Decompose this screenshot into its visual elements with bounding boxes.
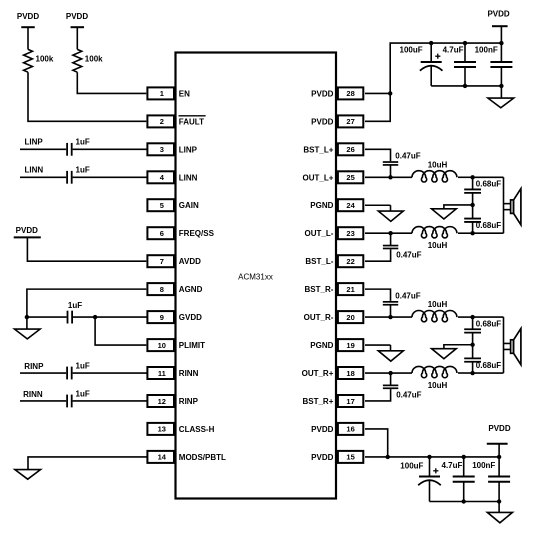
svg-text:16: 16 — [346, 425, 354, 434]
pin 7 AVDD — [147, 255, 201, 267]
capacitor 0.47uF (BST bottom) L — [383, 233, 422, 259]
capacitor 100nF (top) — [475, 43, 513, 86]
wire OUT top to speaker rail R — [473, 316, 504, 318]
pin 17 BST_R+ — [302, 395, 363, 407]
wire top bottom rail — [431, 85, 501, 87]
inductor 10uH (OUT bottom) R — [412, 366, 457, 389]
svg-text:PGND: PGND — [310, 201, 333, 210]
junction top rail at 100uF — [429, 41, 433, 45]
wire RINN to cap — [20, 400, 66, 402]
junction cap rail OUT top R — [470, 315, 474, 319]
svg-text:12: 12 — [158, 397, 166, 406]
power PVDD rail (AVDD) — [14, 226, 41, 238]
wire pin 15 rail — [365, 456, 499, 458]
wire speaker stub bottom L — [504, 209, 511, 211]
wire LINN to cap — [20, 176, 66, 178]
svg-text:0.68uF: 0.68uF — [476, 319, 501, 328]
wire speaker stub top R — [504, 342, 511, 344]
capacitor 0.68uF (upper) L — [464, 180, 501, 193]
ground (MODS/PBTL) — [15, 470, 41, 480]
svg-text:23: 23 — [346, 229, 354, 238]
svg-text:4.7uF: 4.7uF — [442, 461, 463, 470]
svg-text:10uH: 10uH — [428, 300, 448, 309]
svg-text:20: 20 — [346, 313, 354, 322]
capacitor 1uF (LINP) — [67, 138, 90, 156]
wire pin BST bottom R — [365, 389, 391, 401]
wire resistor to pin 2 — [28, 72, 146, 121]
wire speaker stub top L — [504, 203, 511, 205]
svg-text:6: 6 — [160, 229, 164, 238]
junction cap rail mid R — [470, 343, 474, 347]
ground (PGND) L — [378, 205, 403, 221]
junction top rail at 100nF — [499, 41, 503, 45]
pin 11 RINN — [147, 367, 198, 379]
pin 20 OUT_R- — [304, 311, 364, 323]
svg-text:PVDD: PVDD — [311, 453, 333, 462]
svg-text:PVDD: PVDD — [66, 12, 88, 21]
junction OUT top at cap L — [388, 175, 392, 179]
capacitor 4.7uF (top) — [443, 43, 476, 86]
ground (filter mid) L — [432, 205, 473, 219]
svg-text:RINP: RINP — [179, 397, 199, 406]
svg-text:PLIMIT: PLIMIT — [179, 341, 205, 350]
pin 28 PVDD — [311, 87, 363, 99]
pin 4 LINN — [147, 171, 197, 183]
pin 27 PVDD — [311, 115, 363, 127]
svg-text:BST_L+: BST_L+ — [303, 145, 333, 154]
pin 15 PVDD — [311, 451, 363, 463]
svg-text:10uH: 10uH — [428, 381, 448, 390]
svg-text:0.68uF: 0.68uF — [476, 180, 501, 189]
wire RINP to cap — [20, 372, 66, 374]
svg-text:1uF: 1uF — [76, 390, 90, 399]
wire cap to pin 4 — [73, 176, 148, 178]
wire pin 28 to PVDD rail — [365, 92, 390, 94]
wire pin 16 to rail — [365, 429, 388, 457]
power PVDD (bottom right) — [487, 424, 511, 457]
junction top rail at 4.7uF — [463, 41, 467, 45]
junction cap rail mid L — [470, 203, 474, 207]
capacitor 100uF (top bulk) — [400, 43, 443, 86]
pin 5 GAIN — [147, 199, 199, 211]
svg-text:OUT_R-: OUT_R- — [304, 313, 334, 322]
pin 14 MODS/PBTL — [147, 451, 226, 463]
svg-text:21: 21 — [346, 285, 354, 294]
svg-text:PVDD: PVDD — [311, 117, 333, 126]
wire bottom bottom rail — [430, 501, 500, 503]
svg-text:100k: 100k — [85, 55, 103, 64]
wire pin OUT top to inductor R — [365, 316, 412, 318]
wire pin 14 to ground — [28, 457, 147, 470]
pin 6 FREQ/SS — [147, 227, 214, 239]
junction bottom rail 100uF — [427, 455, 431, 459]
svg-text:100uF: 100uF — [400, 462, 423, 471]
wire cap rail vertical R — [472, 317, 474, 329]
wire inductor to cap rail bottom L — [458, 232, 473, 234]
pin 10 PLIMIT — [147, 339, 205, 351]
junction pin 28 node — [388, 91, 392, 95]
svg-text:0.47uF: 0.47uF — [396, 251, 421, 260]
svg-text:OUT_L-: OUT_L- — [305, 229, 334, 238]
capacitor 1uF (RINN) — [67, 390, 90, 408]
wire OUT bottom to speaker rail L — [473, 232, 504, 234]
speaker R — [511, 329, 521, 365]
capacitor 0.47uF (BST bottom) R — [383, 373, 422, 399]
ground (top right) — [488, 86, 514, 108]
pin 25 OUT_L+ — [302, 171, 363, 183]
junction bottom rail 4.7uF — [462, 455, 466, 459]
svg-text:3: 3 — [160, 145, 164, 154]
resistor 100k (FAULT pull-up) — [24, 49, 54, 72]
capacitor 0.47uF (BST top) R — [383, 291, 421, 317]
ground (filter mid) R — [432, 345, 473, 359]
svg-text:OUT_L+: OUT_L+ — [302, 173, 333, 182]
junction cap rail OUT top L — [470, 175, 474, 179]
pin 22 BST_L- — [305, 255, 363, 267]
svg-text:8: 8 — [160, 285, 164, 294]
wire inductor to cap rail R — [458, 316, 473, 318]
ground (AGND) — [15, 317, 41, 339]
svg-text:PVDD: PVDD — [488, 424, 510, 433]
wire pin 8 AGND to ground node — [27, 289, 146, 317]
junction bb rail 4.7uF — [462, 499, 466, 503]
svg-text:GAIN: GAIN — [179, 201, 199, 210]
junction bottom rail at 100nF — [499, 84, 503, 88]
svg-text:22: 22 — [346, 257, 354, 266]
svg-text:13: 13 — [158, 425, 166, 434]
svg-text:100nF: 100nF — [475, 46, 498, 55]
svg-text:LINP: LINP — [179, 145, 198, 154]
svg-text:25: 25 — [346, 173, 354, 182]
svg-text:0.47uF: 0.47uF — [395, 152, 420, 161]
pin 19 PGND — [310, 339, 363, 351]
svg-text:100k: 100k — [36, 55, 54, 64]
svg-text:100uF: 100uF — [400, 46, 423, 55]
svg-text:BST_R-: BST_R- — [305, 285, 334, 294]
junction pin16/15 node — [386, 455, 390, 459]
junction OUT bottom at cap R — [388, 371, 392, 375]
svg-text:5: 5 — [160, 201, 164, 210]
svg-text:LINP: LINP — [25, 138, 44, 147]
pin 26 BST_L+ — [303, 143, 363, 155]
wire cap rail vertical L — [472, 177, 474, 189]
junction cap rail OUT bottom R — [470, 371, 474, 375]
wire PVDD to pin 7 — [27, 237, 146, 261]
wire pin BST top L — [365, 149, 391, 161]
pin 16 PVDD — [311, 423, 363, 435]
wire cap to pin 11 — [73, 372, 148, 374]
wire pin OUT bottom to inductor R — [365, 372, 412, 374]
svg-text:PVDD: PVDD — [311, 89, 333, 98]
pin 1 EN — [147, 87, 190, 99]
wire cap to pin 3 — [73, 148, 148, 150]
svg-text:PVDD: PVDD — [16, 226, 38, 235]
inductor 10uH (OUT top) R — [412, 300, 457, 322]
svg-text:11: 11 — [158, 369, 166, 378]
svg-text:EN: EN — [179, 89, 190, 98]
svg-text:LINN: LINN — [179, 173, 198, 182]
svg-text:AVDD: AVDD — [179, 257, 201, 266]
capacitor 0.68uF (lower) L — [464, 219, 501, 231]
pin 8 AGND — [147, 283, 202, 295]
capacitor 0.68uF (upper) R — [464, 319, 501, 332]
capacitor 4.7uF (bottom) — [442, 457, 475, 502]
svg-text:RINP: RINP — [24, 362, 44, 371]
svg-text:RINN: RINN — [23, 390, 43, 399]
wire inductor to cap rail L — [458, 176, 473, 178]
svg-text:10uH: 10uH — [428, 241, 448, 250]
capacitor 1uF (LINN) — [67, 165, 90, 183]
wire pin 27 to PVDD rail — [365, 43, 431, 121]
junction cap rail OUT bottom L — [470, 231, 474, 235]
junction bottom rail 100nF — [497, 455, 501, 459]
wire OUT bottom to speaker rail R — [473, 372, 504, 374]
ground (PGND) R — [378, 345, 403, 361]
svg-text:4.7uF: 4.7uF — [443, 46, 464, 55]
wire ground node to cap — [27, 316, 67, 318]
wire pin PGND L — [365, 204, 391, 206]
power PVDD rail (EN pull-up) — [66, 12, 88, 49]
capacitor 0.68uF (lower) R — [464, 358, 501, 370]
wire cap to pin 12 — [73, 400, 148, 402]
junction AGND node — [25, 315, 29, 319]
wire pin BST bottom L — [365, 249, 391, 261]
svg-text:9: 9 — [160, 313, 164, 322]
svg-text:0.47uF: 0.47uF — [395, 291, 420, 300]
svg-text:26: 26 — [346, 145, 354, 154]
svg-text:19: 19 — [346, 341, 354, 350]
wire inductor to cap rail bottom R — [458, 372, 473, 374]
svg-text:BST_R+: BST_R+ — [302, 397, 333, 406]
svg-text:27: 27 — [346, 117, 354, 126]
svg-text:100nF: 100nF — [472, 461, 495, 470]
junction OUT bottom at cap L — [388, 231, 392, 235]
wire pin OUT bottom to inductor L — [365, 232, 412, 234]
svg-text:FREQ/SS: FREQ/SS — [179, 229, 215, 238]
svg-text:GVDD: GVDD — [179, 313, 202, 322]
svg-text:1uF: 1uF — [68, 301, 82, 310]
svg-text:OUT_R+: OUT_R+ — [302, 369, 334, 378]
svg-text:10: 10 — [158, 341, 166, 350]
svg-text:1uF: 1uF — [76, 138, 90, 147]
svg-text:PVDD: PVDD — [311, 425, 333, 434]
svg-text:28: 28 — [346, 89, 354, 98]
svg-text:10uH: 10uH — [428, 160, 448, 169]
capacitor 0.47uF (BST top) L — [383, 152, 421, 178]
wire pin BST top R — [365, 289, 391, 301]
inductor 10uH (OUT bottom) L — [412, 227, 457, 250]
pin 18 OUT_R+ — [302, 367, 364, 379]
svg-text:PVDD: PVDD — [487, 10, 509, 19]
power PVDD (top right) — [487, 10, 509, 44]
pin 12 RINP — [147, 395, 198, 407]
svg-text:1uF: 1uF — [76, 165, 90, 174]
pin 13 CLASS-H — [147, 423, 214, 435]
junction GVDD node — [93, 315, 97, 319]
wire resistor to pin 1 — [77, 72, 146, 93]
svg-text:0.68uF: 0.68uF — [476, 221, 501, 230]
wire pin PGND R — [365, 344, 391, 346]
junction OUT top at cap R — [388, 315, 392, 319]
svg-text:BST_L-: BST_L- — [305, 257, 333, 266]
svg-text:1: 1 — [160, 89, 164, 98]
wire speaker rail R — [503, 317, 505, 373]
pin 21 BST_R- — [305, 283, 364, 295]
svg-text:PVDD: PVDD — [17, 12, 39, 21]
pin 3 LINP — [147, 143, 197, 155]
svg-text:AGND: AGND — [179, 285, 203, 294]
capacitor 1uF (GVDD bypass) — [68, 301, 83, 324]
svg-text:ACM31xx: ACM31xx — [238, 273, 273, 282]
svg-text:24: 24 — [346, 201, 355, 210]
capacitor 100uF (bottom bulk) — [400, 457, 441, 502]
svg-text:CLASS-H: CLASS-H — [179, 425, 215, 434]
junction bottom rail at 4.7uF — [463, 84, 467, 88]
capacitor 100nF (bottom) — [472, 457, 510, 502]
svg-text:PGND: PGND — [310, 341, 333, 350]
ground (bottom right) — [487, 502, 512, 523]
svg-text:17: 17 — [346, 397, 354, 406]
svg-text:LINN: LINN — [25, 165, 44, 174]
svg-text:RINN: RINN — [179, 369, 199, 378]
wire PVDD top rail — [431, 42, 501, 44]
pin 9 GVDD — [147, 311, 202, 323]
junction bb rail 100nF — [497, 499, 501, 503]
resistor 100k (EN pull-up) — [73, 49, 103, 72]
svg-text:1uF: 1uF — [76, 361, 90, 370]
svg-text:18: 18 — [346, 369, 354, 378]
wire OUT top to speaker rail L — [473, 176, 504, 178]
wire speaker rail L — [503, 177, 505, 233]
wire GVDD node to pin 10 PLIMIT — [95, 317, 146, 345]
wire speaker stub bottom R — [504, 348, 511, 350]
svg-text:FAULT: FAULT — [179, 117, 204, 126]
inductor 10uH (OUT top) L — [412, 160, 457, 182]
wire pin OUT top to inductor L — [365, 176, 412, 178]
power PVDD rail (FAULT pull-up) — [17, 12, 39, 49]
svg-text:7: 7 — [160, 257, 164, 266]
pin 2 FAULT — [147, 115, 205, 127]
svg-text:MODS/PBTL: MODS/PBTL — [179, 453, 226, 462]
svg-text:2: 2 — [160, 117, 164, 126]
speaker L — [511, 189, 521, 225]
svg-text:0.68uF: 0.68uF — [476, 361, 501, 370]
pin 23 OUT_L- — [305, 227, 364, 239]
svg-text:14: 14 — [158, 453, 167, 462]
IC U1 ACM31xx body — [176, 53, 337, 499]
capacitor 1uF (RINP) — [67, 361, 90, 379]
wire cap to pin 9 GVDD — [73, 316, 147, 318]
svg-text:0.47uF: 0.47uF — [396, 390, 421, 399]
pin 24 PGND — [310, 199, 363, 211]
svg-text:15: 15 — [346, 453, 354, 462]
wire LINP to cap — [20, 148, 66, 150]
